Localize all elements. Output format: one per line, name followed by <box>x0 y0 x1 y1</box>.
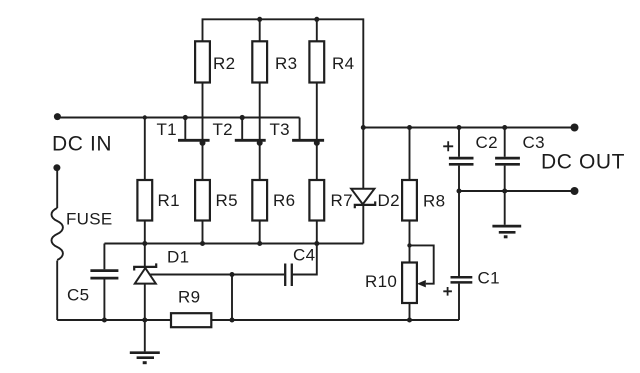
ground C3 <box>492 191 521 237</box>
capacitor C1 <box>451 191 473 320</box>
fuse FUSE <box>52 208 63 260</box>
DC OUT plus terminal <box>571 124 579 132</box>
ground left <box>130 320 160 363</box>
resistor R3 <box>252 41 267 82</box>
transistor T1 <box>178 115 210 146</box>
resistor R4 <box>309 41 324 82</box>
wire fuse to bottom bus <box>56 261 58 321</box>
wire DC IN minus to fuse <box>56 168 58 208</box>
svg-text:R6: R6 <box>273 191 295 210</box>
capacitor C4 <box>285 244 317 287</box>
svg-text:FUSE: FUSE <box>66 210 113 229</box>
svg-text:R7: R7 <box>331 191 353 210</box>
svg-text:R8: R8 <box>423 192 445 211</box>
wire R3 to R6 channel <box>259 83 261 181</box>
wire D1 to C4 <box>150 274 284 276</box>
wire top bus <box>203 19 364 127</box>
node lower rail C3 <box>502 189 507 194</box>
resistor R9 <box>171 313 211 327</box>
node lower rail C2 <box>457 189 462 194</box>
wire R2 to R5 channel <box>202 83 204 181</box>
wire R7 to middle bus <box>316 221 318 244</box>
wire R4 top lead <box>316 19 318 41</box>
diode D1 zener <box>134 244 156 321</box>
wire R10 to bottom bus <box>409 303 411 320</box>
wire R3 top lead <box>259 19 261 41</box>
svg-text:C2: C2 <box>476 133 498 152</box>
transistor T3 <box>292 118 324 146</box>
svg-text:D1: D1 <box>167 248 189 267</box>
svg-text:C4: C4 <box>293 246 315 265</box>
wire R4 to R7 channel <box>316 83 318 181</box>
transistor T2 <box>235 115 266 146</box>
node upper rail C3 <box>502 125 507 130</box>
svg-text:R5: R5 <box>216 191 238 210</box>
wire R8 to R10 <box>409 221 411 263</box>
resistor R8 <box>402 180 417 221</box>
capacitor C2 <box>449 128 474 192</box>
DC IN minus terminal <box>53 164 60 171</box>
svg-text:R2: R2 <box>213 54 235 73</box>
wire DC OUT lower rail <box>459 190 575 192</box>
wire drop to bottom bus <box>231 275 233 321</box>
wire bottom bus <box>57 319 459 321</box>
svg-text:C3: C3 <box>523 133 545 152</box>
svg-text:DC IN: DC IN <box>52 133 112 156</box>
svg-text:T2: T2 <box>213 120 233 139</box>
svg-text:C1: C1 <box>478 269 500 288</box>
svg-text:C5: C5 <box>67 286 89 305</box>
svg-text:R3: R3 <box>275 54 297 73</box>
svg-text:R4: R4 <box>332 54 354 73</box>
svg-text:R1: R1 <box>158 191 180 210</box>
capacitor C5 <box>90 244 118 321</box>
svg-text:R10: R10 <box>365 272 397 291</box>
wire middle bus <box>104 243 363 245</box>
svg-text:T1: T1 <box>157 120 177 139</box>
wire R1 to middle bus <box>144 221 146 244</box>
C2 plus sign <box>443 141 453 151</box>
node top bus R4 tap <box>314 17 319 22</box>
C1 plus sign <box>443 287 452 296</box>
node upper rail C2 <box>457 125 462 130</box>
DC IN plus terminal <box>54 113 61 120</box>
wire R5 to middle bus <box>202 221 204 244</box>
diode D2 zener <box>351 128 375 244</box>
node bottom bus D1 <box>142 318 147 323</box>
svg-text:T3: T3 <box>270 120 290 139</box>
node middle bus R1 <box>142 241 147 246</box>
node wiper tap <box>407 243 411 247</box>
node middle bus R7 <box>314 241 319 246</box>
wire rail to R1 <box>144 118 146 181</box>
node upper rail R8 <box>407 125 412 130</box>
wire DC IN rail <box>57 117 299 119</box>
resistor R10 potentiometer <box>402 263 417 304</box>
node bottom bus R10 <box>407 318 412 323</box>
node upper rail D2 <box>361 125 366 130</box>
DC OUT minus terminal <box>571 187 579 195</box>
node middle bus R5 <box>200 241 205 246</box>
wire DC OUT upper rail <box>363 127 574 129</box>
wire R10 wiper loop <box>410 245 434 283</box>
capacitor C3 <box>495 128 520 192</box>
resistor R2 <box>195 41 210 82</box>
wire R6 to middle bus <box>259 221 261 244</box>
node middle bus R6 <box>257 241 262 246</box>
node C4 wire drop <box>230 272 235 277</box>
node bottom bus C5 <box>102 318 107 323</box>
R10 wiper arrow <box>417 280 426 287</box>
resistor R1 <box>137 180 152 221</box>
resistor R6 <box>252 180 267 221</box>
resistor R5 <box>195 180 210 221</box>
svg-text:D2: D2 <box>378 191 400 210</box>
node bottom bus drop <box>230 318 235 323</box>
node rail R1 tap <box>143 115 147 119</box>
node top bus R3 tap <box>257 17 262 22</box>
svg-text:DC OUT: DC OUT <box>541 151 625 174</box>
resistor R7 <box>309 180 324 221</box>
svg-text:R9: R9 <box>178 288 200 307</box>
wire R8 top lead <box>409 128 411 181</box>
